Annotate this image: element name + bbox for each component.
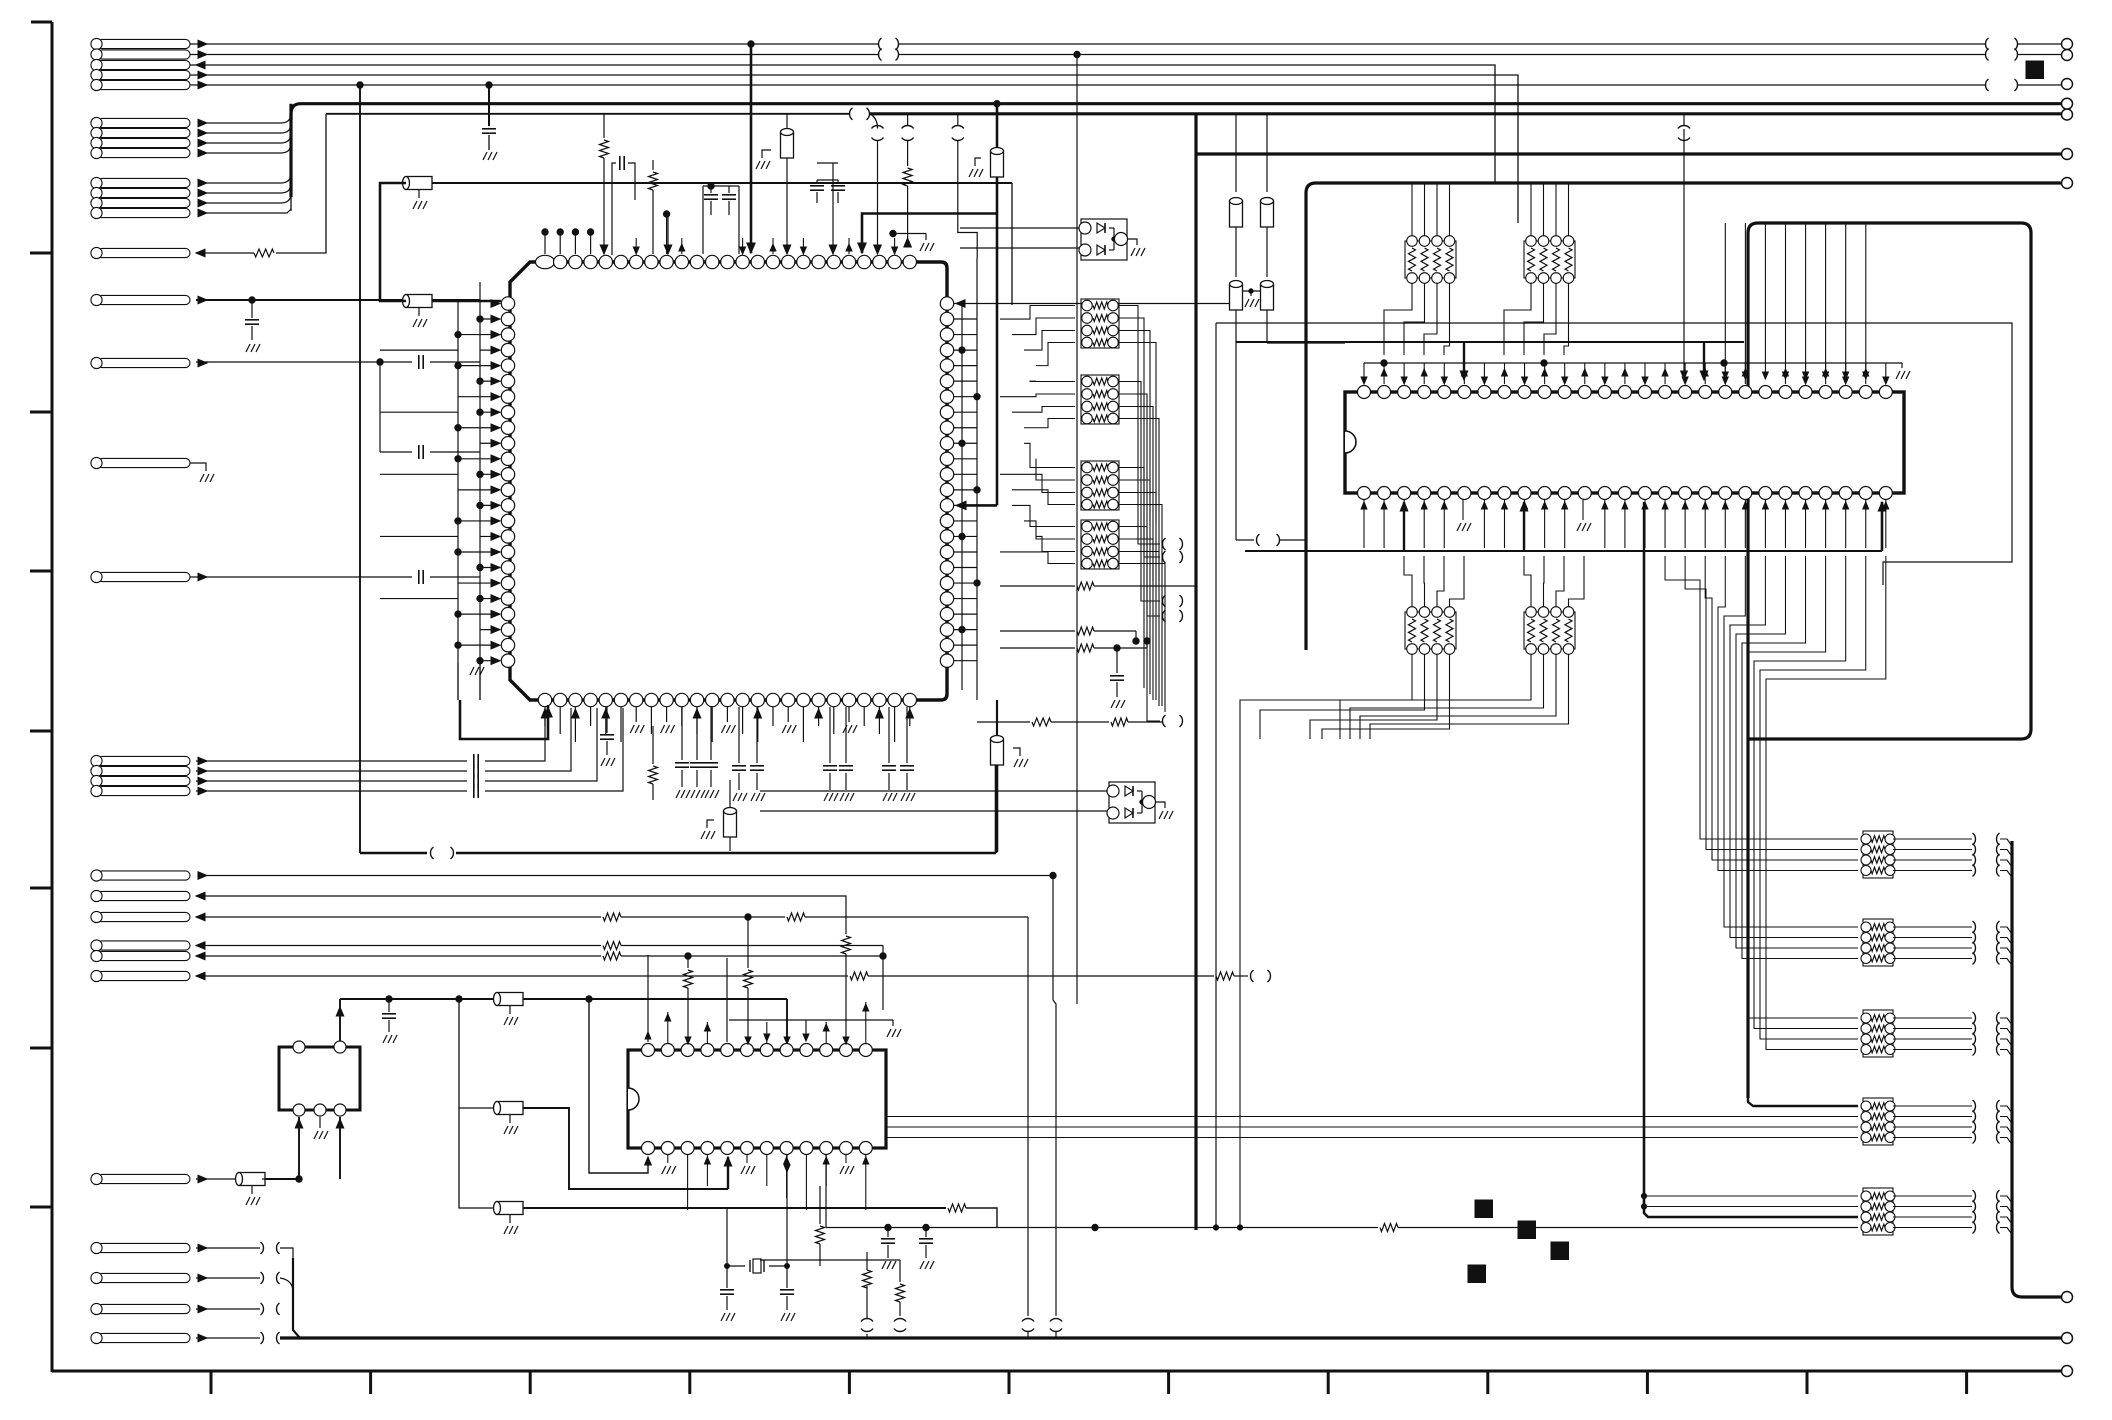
connector J1 pin [98,39,191,48]
terminal circle [2062,98,2073,109]
crystal caps [726,1266,728,1288]
arrow into pin1 [491,300,500,308]
wire y956 [196,955,601,957]
cap electrolytic CE3 [729,780,731,812]
power bus y551 [1245,550,1882,552]
arrow thick1 [1463,342,1465,378]
wire fan groups BC to bus [207,113,291,123]
filter U3 body [279,1047,360,1110]
terminal circle [2062,1292,2073,1303]
connector J13 pin [98,208,191,217]
resistor R6 [1000,630,1075,632]
wires U3 [339,999,341,1041]
resistor R9 [819,1186,821,1224]
wire line5 [190,84,1985,86]
capacitor C7 pair [703,185,739,187]
node dot top pin 4 [587,229,593,235]
terminal circle [2062,50,2073,61]
wire y910 [196,916,601,918]
terminal circle [2062,79,2073,90]
terminal circle [2062,149,2073,160]
IC U2 body [1345,392,1904,493]
wire thick x751 [750,44,753,253]
wire y939 [196,945,601,947]
wire U4 pin1 feed [647,955,649,1042]
capacitor C6 bridge [612,163,616,255]
resistor network RN11 [1863,1010,1893,1057]
wire y540 breaks [1236,539,1254,541]
power bus loop right [1748,223,2031,1098]
connector J22 pin [98,786,191,795]
connector J7 pin [98,128,191,137]
border frame bottom rail [52,1370,2062,1373]
capacitor C18 [888,707,890,763]
ground [726,707,728,722]
connector J32 pin [98,1304,191,1313]
terminal circle frame end [2062,1366,2073,1377]
terminal circle [2062,39,2073,50]
connector J12 pin [98,198,191,207]
wire rail x977 [976,258,978,700]
diode pack D1 [1081,219,1127,260]
thick risers [1403,502,1405,551]
capacitor C8 pair [817,179,838,181]
wires RN5 up [1411,185,1413,237]
wire x1028 [1027,917,1029,1316]
connector J29 pin [98,1174,191,1183]
resistor R3 [652,160,654,170]
connector J33 pin [98,1333,191,1342]
wires U4 to RN12 [886,1116,1858,1118]
cap electrolytic CE1 [991,151,1004,177]
IC U1 top pins [536,255,555,268]
ground U2 pin2 [1582,500,1584,520]
wire y1227 long [826,1227,1378,1229]
ground U2 pin [1462,500,1464,520]
capacitor C4 series [190,576,412,578]
ground beads [1243,290,1260,292]
filter U3 pins top [293,1041,305,1053]
wires U3 bottom [262,1117,299,1179]
IC U1 bottom pins [538,693,551,706]
capacitor C19 [906,707,908,763]
connector J14 pin [98,248,191,257]
connector J21 pin [98,776,191,785]
IC U4 top pins [642,1044,655,1057]
wire rail x962 [961,303,963,690]
wire x883 feed [882,956,884,1010]
wire long feeds [380,349,458,351]
filter U3 pins bottom [293,1104,305,1116]
bus x1306 lower [1304,350,1307,650]
pcb label block [1551,1242,1569,1260]
wire x957 [957,114,959,125]
cap electrolytic CE2 [996,700,998,741]
capacitor C12 [696,707,698,760]
resistor network RN1 [1081,299,1119,348]
connector J20 pin [98,766,191,775]
wire x1077 [1076,55,1078,1005]
ground [787,707,789,722]
node dot pin5 [663,211,669,217]
connector J23 pin [98,871,191,880]
wire drop x326 to pill6 resistor [276,114,326,253]
connector J5 pin [98,80,191,89]
power bus y851 [360,852,427,855]
capacitor C3 series [379,362,381,452]
wire thick x380 [380,183,406,301]
ground [635,707,637,722]
wire rail x480 [479,282,481,700]
resistor network RN5 [1405,241,1456,278]
node dot top pin 1 [542,229,548,235]
wire thick to pin [862,214,997,254]
resistor network RN4 [1081,520,1119,569]
connector J9 pin [98,148,191,157]
connector J26 pin [98,941,191,950]
arrow thick2 [1703,342,1705,378]
connector J10 pin [98,178,191,187]
ground rail bottom [479,660,481,700]
capacitor C14 [738,707,740,763]
thick x1644 down [1644,551,1858,1217]
wire pill1338 thick [196,1337,260,1339]
connector J2 pin [98,50,191,59]
wire line4 [190,75,1518,223]
terminal circle [2062,1333,2073,1344]
connector J18 pin [98,572,191,581]
terminal circle [2062,178,2073,189]
node dot top pin 3 [572,229,578,235]
ground pill463 [190,463,206,471]
bus y342 [1236,341,1744,343]
bead cap FB3 [786,114,788,134]
connector J27 pin [98,951,191,960]
wire x1216 [1215,323,1217,1228]
wire stubs top pins [635,238,637,254]
wire x589 feed [589,999,648,1173]
break x867 [866,1286,868,1318]
IC U4 bottom pins [642,1142,655,1155]
wire y875 [207,875,1053,877]
IC U1 QFP body [510,262,947,700]
wire drop x360 [359,85,361,853]
wire x877 break [870,114,878,129]
rail y1208 [459,1108,497,1208]
wire rail x458 [457,300,459,700]
IC U2 bottom pins [1358,487,1371,500]
ferrite bead FB5 [1266,114,1268,192]
wire bus top line 1 [190,43,878,45]
capacitor C16 [829,707,831,763]
power bus thick [291,104,2061,120]
connector J3 pin [98,60,191,69]
wire bead1 line [432,182,1012,184]
wire x293 drop [293,1258,300,1338]
pcb label block [2026,61,2044,79]
wires RN6 up [1530,185,1532,237]
wire y976 [196,975,848,977]
ferrite bead FB1 [429,182,505,184]
connector J6 pin [98,118,191,127]
wire to diode pack D1 [960,227,1079,229]
resistor R10 [899,1260,901,1282]
capacitor C20 [606,707,608,733]
wire x1056 [1052,876,1054,1001]
resistor network RN2 [1081,375,1119,424]
wire x748 feed [747,917,749,968]
connector J4 pin [98,70,191,79]
wire x1495 x1518 drop [1494,182,1496,184]
rail y1020 [729,1019,893,1021]
IC U2 top pins [1358,386,1371,399]
connector J17 pin [98,458,191,467]
bus line y114 [326,113,849,115]
capacitor C2 series [196,361,412,363]
connector J15 pin [98,295,191,304]
resistor R2 [603,114,605,138]
power bus y183 [1306,183,2061,350]
resistor network RN8 [1524,612,1575,649]
power bus bottom y1338 [600,1336,2061,1339]
resistor R5 [1000,585,1075,587]
resistor network RN12 [1863,1098,1893,1145]
resistor network RN6 [1524,241,1575,278]
connector J16 pin [98,358,191,367]
wire pill1278 [196,1277,260,1279]
connector J24 pin [98,891,191,900]
wire line3 [190,65,1495,183]
crystal feeds [726,1208,728,1266]
wire thick x997 [996,104,999,506]
resistor network RN13 [1863,1188,1893,1235]
ferrite bead FB4 [1235,114,1237,192]
wire bundle above U2 [1724,223,1726,377]
connector J19 pin [98,756,191,765]
wire thick bottom left [460,700,548,739]
node dot top pin 2 [557,229,563,235]
bus riser x291 [289,104,292,197]
wire bus top line 2 [190,54,878,56]
capacitor series cluster C10 [196,760,467,762]
connector break symbols [1163,538,1166,550]
wire pill1309 [196,1308,260,1310]
connector J25 pin [98,912,191,921]
wire stub [667,214,669,254]
resistor R7 [1000,647,1075,649]
bead FB6 [196,1178,242,1180]
rail y233 gnd [893,233,926,235]
IC U1 left pins [501,297,514,310]
wire pill1248 [196,1247,260,1249]
connector J11 pin [98,188,191,197]
capacitor C9 [1116,648,1118,673]
resistor network RN10 [1863,919,1893,966]
connector J31 pin [98,1273,191,1282]
IC U4 body [628,1050,886,1148]
wires RN8 down [1340,654,1531,739]
wire U4 pin5 feed [726,958,728,1042]
crystal X1 [727,1265,745,1267]
resistor R8 [652,726,654,764]
capacitor C5 [251,300,253,318]
connector J28 pin [98,971,191,980]
resistor network RN3 [1081,461,1119,510]
wire x1684 [1683,129,1685,377]
resistor network RN7 [1405,612,1456,649]
wire rail y363 [1364,362,1902,364]
pcb label block [1518,1221,1536,1239]
pcb label block [1468,1265,1486,1283]
rail y1108 [459,999,497,1108]
connector J30 pin [98,1243,191,1252]
wire drop x1012 [1011,183,1013,305]
wire loop thin [1216,323,2012,585]
pcb label block [1475,1200,1493,1218]
wire pill300 [196,299,480,301]
wire to diode pack D2 [760,790,1107,792]
ground U3 [319,1117,321,1128]
caps right of U4 [887,1228,889,1238]
connector J8 pin [98,138,191,147]
power bus into RN12 [1748,1098,1858,1106]
wire y343 [1267,342,1345,344]
power bus y154 [1196,152,2061,155]
wire x688 feed [687,956,689,968]
capacitor C17 [845,707,847,763]
wires RN7 down [1240,654,1412,1228]
capacitor C21 [388,999,390,1012]
terminal circle [2062,109,2073,120]
wire y722 resistors [977,721,1030,723]
capacitor C15 [756,707,758,763]
resistor R4 x907 [907,114,909,125]
power bus right drop [2012,841,2061,1297]
wire y890 [196,896,846,934]
IC U1 right pins [940,297,953,310]
resistor network RN9 [1863,831,1893,878]
wire staircase U2 to RN stacks [1665,556,1700,833]
ground [848,707,850,722]
ferrite bead FB2 [429,300,501,303]
rail y999 [340,998,497,1000]
capacitor C13 [710,707,712,760]
wires to RN13 rows01 [1644,1195,1858,1197]
capacitor C1 [488,85,490,126]
diode pack D2 [1109,782,1155,823]
capacitor C11 [681,707,683,760]
border frame left rail [51,22,54,1372]
ground [666,707,668,722]
bus vertical x1196 thick [1194,114,1197,1230]
